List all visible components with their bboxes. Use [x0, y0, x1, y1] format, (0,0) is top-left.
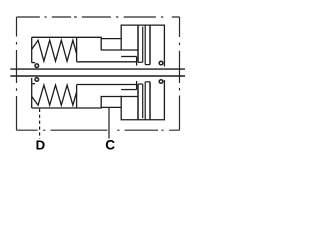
- seat step vertical m: [136, 81, 138, 90]
- seat step vertical: [136, 57, 138, 66]
- svg-text:C: C: [105, 138, 115, 153]
- pipe line upper: [10, 68, 185, 70]
- port circle upper-right: [159, 61, 163, 65]
- left foot tick m: [32, 83, 35, 85]
- ledge m: [101, 106, 121, 108]
- spring chamber right wall m: [76, 85, 78, 108]
- poppet line A: [137, 25, 139, 62]
- poppet slot2 bottom m: [145, 81, 150, 83]
- poppet slot bottom: [138, 61, 143, 63]
- box right edge: [179, 17, 181, 130]
- sleeve top edge m: [32, 96, 138, 108]
- svg-text:D: D: [36, 138, 46, 153]
- sleeve top edge: [32, 37, 138, 50]
- ledge: [101, 38, 121, 40]
- pipe line lower: [10, 75, 185, 77]
- cap block m: [121, 80, 164, 120]
- spring S1: [32, 40, 77, 61]
- poppet line C: [144, 25, 146, 65]
- left foot tick: [32, 62, 35, 64]
- valve upper half: [32, 25, 165, 66]
- poppet line Bm: [142, 84, 144, 118]
- poppet line Cm: [144, 82, 146, 120]
- port circle upper-left: [35, 64, 39, 68]
- port circle lower-left: [35, 78, 39, 82]
- poppet slot2 bottom: [145, 64, 150, 66]
- poppet line D: [149, 25, 151, 65]
- enclosure dash-dot box: [17, 17, 180, 130]
- box left edge: [16, 17, 18, 130]
- leader D dashed: [39, 109, 41, 139]
- poppet slot bottom m: [138, 83, 143, 85]
- sleeve bottom edge m: [77, 83, 137, 85]
- leader C solid: [108, 107, 110, 139]
- poppet line Am: [137, 84, 139, 120]
- port circle lower-right: [159, 80, 163, 84]
- seat step horizontal m: [121, 89, 136, 91]
- valve lower half (mirror): [32, 78, 165, 120]
- box bottom edge: [17, 129, 180, 131]
- seat step horizontal: [121, 56, 136, 58]
- sleeve bottom edge: [77, 61, 137, 63]
- box top edge: [17, 16, 180, 18]
- poppet line B: [142, 27, 144, 63]
- spring S2: [32, 85, 77, 105]
- cap block: [121, 25, 164, 66]
- sleeve left edge: [31, 37, 33, 62]
- sleeve left edge m (extends toward pipe line): [31, 78, 33, 108]
- spring chamber right wall: [76, 37, 78, 61]
- poppet line Dm: [149, 82, 151, 120]
